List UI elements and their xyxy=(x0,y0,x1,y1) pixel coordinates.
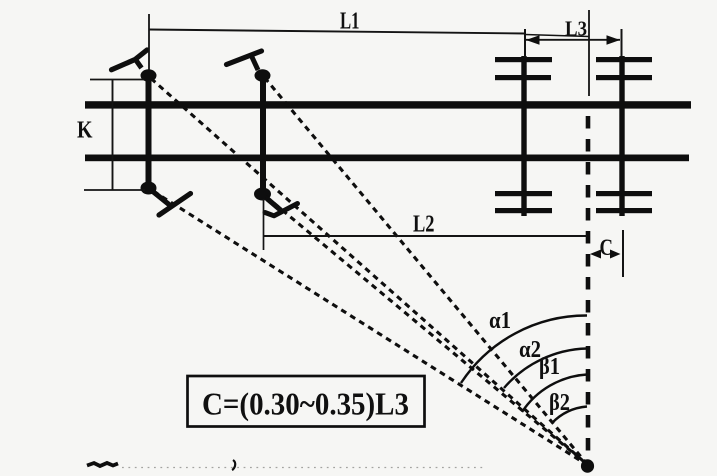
dashed sight line F4 from P2 bottom node xyxy=(266,197,587,465)
dimension C right arrowhead xyxy=(610,250,621,259)
dimension L2 line xyxy=(264,235,587,237)
svg-text:β1: β1 xyxy=(539,354,560,380)
angle arc alpha2 xyxy=(504,349,587,389)
svg-text:L1: L1 xyxy=(340,9,360,35)
pole P1 top cantilever drop link xyxy=(136,60,142,69)
dimension L3 right arrowhead xyxy=(607,35,621,44)
angle arc beta2 xyxy=(552,407,587,424)
bottom-left scan squiggle xyxy=(87,463,118,466)
dimension L3 left extension line xyxy=(524,29,526,57)
pole P1 top cantilever arm xyxy=(112,50,148,70)
pole P3 bottom tie 1 xyxy=(495,191,552,196)
svg-text:β2: β2 xyxy=(549,390,570,416)
dashed sight line F3 from P1 bottom node xyxy=(153,191,587,465)
pole P2 bottom cantilever cross bar xyxy=(265,204,298,216)
rail 1 (upper track line) xyxy=(85,101,691,108)
rail 2 (lower track line) xyxy=(85,155,689,162)
pole P1 (left mast) xyxy=(146,74,152,189)
angle arc beta1 xyxy=(522,375,587,413)
pole P3 (third mast, plain with ties) xyxy=(521,56,526,216)
pole P2 bottom node xyxy=(254,188,271,201)
pole P1 bottom cantilever cross bar xyxy=(159,194,191,216)
svg-text:α2: α2 xyxy=(519,337,541,363)
pole P2 top cantilever arm xyxy=(227,51,262,65)
pole P4 (fourth mast, plain with ties) xyxy=(619,56,624,216)
dimension K line xyxy=(112,80,114,191)
pole P2 bottom cantilever arm xyxy=(268,199,281,210)
pole P1 bottom cantilever arm xyxy=(154,192,170,205)
centre line upper thin segment xyxy=(588,10,590,96)
dashed sight line F2 from P2 top node xyxy=(265,78,588,465)
angle arc alpha1 xyxy=(461,315,587,383)
dimension L3 right extension line xyxy=(621,29,623,57)
svg-text:L3: L3 xyxy=(565,16,587,40)
pole P4 bottom tie 2 xyxy=(596,208,652,213)
bottom faint dotted scan line xyxy=(122,467,484,469)
pole P2 top node xyxy=(255,69,271,81)
dimension K upper extension line xyxy=(90,79,144,81)
pole P3 top tie 1 xyxy=(495,57,552,62)
dimension C right extension line xyxy=(622,230,624,277)
dimension L3 left arrowhead xyxy=(526,35,540,44)
dimension L3 line xyxy=(526,39,620,41)
pole P2 top cantilever drop link xyxy=(252,56,259,70)
centre line thick dashed segment xyxy=(586,116,591,456)
formula box frame xyxy=(188,376,425,427)
dimension L1 line xyxy=(149,30,525,34)
pole P2 (second mast) xyxy=(260,73,266,195)
pole P4 bottom tie 1 xyxy=(596,191,652,196)
pole P4 top tie 1 xyxy=(596,57,652,62)
svg-text:α1: α1 xyxy=(489,308,511,334)
pole P1 bottom node xyxy=(141,182,157,195)
pole P4 top tie 2 xyxy=(596,75,652,80)
pole P2 lower extension line to L2 xyxy=(263,199,265,250)
dimension L3 upper stray line xyxy=(525,35,589,37)
pole P1 top node xyxy=(141,69,157,81)
svg-text:K: K xyxy=(77,118,93,144)
pole P3 bottom tie 2 xyxy=(495,208,552,213)
dimension L1 left extension line xyxy=(148,14,150,70)
svg-text:C=(0.30~0.35)L3: C=(0.30~0.35)L3 xyxy=(202,387,409,422)
pole P3 top tie 2 xyxy=(495,75,551,80)
convergence point dot xyxy=(581,459,594,473)
bottom comma scan mark xyxy=(232,460,235,470)
dimension C left arrowhead xyxy=(590,250,601,259)
dimension K lower extension line xyxy=(84,189,145,191)
dashed sight line F1 from P1 top node xyxy=(151,79,587,465)
svg-text:L2: L2 xyxy=(413,212,435,238)
